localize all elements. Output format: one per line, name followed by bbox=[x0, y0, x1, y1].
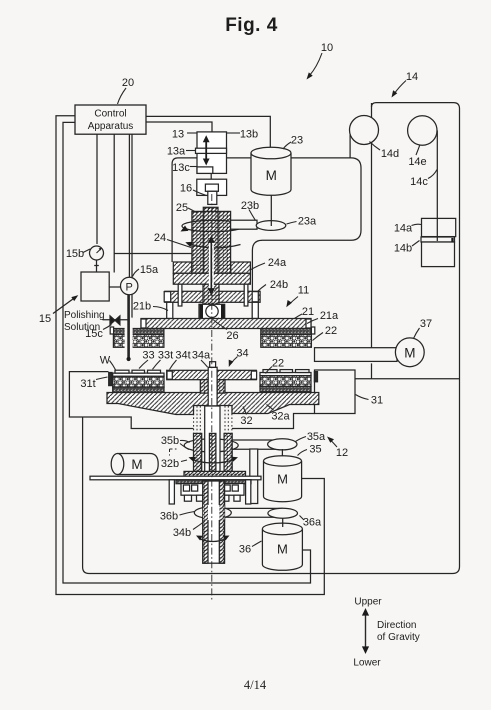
svg-text:of Gravity: of Gravity bbox=[377, 632, 420, 643]
motor 37 bbox=[395, 338, 424, 367]
leader 34b bbox=[193, 522, 204, 530]
wire outer left enclosure to motor 35 bbox=[56, 116, 324, 595]
svg-text:11: 11 bbox=[298, 285, 309, 297]
svg-text:M: M bbox=[404, 346, 415, 361]
arm hub columns bbox=[200, 380, 208, 393]
mount plate 24b bbox=[165, 291, 260, 302]
carrier strip 33t left bbox=[113, 373, 164, 376]
nozzle unit 16 box bbox=[197, 179, 227, 195]
frame 14 outline right side bbox=[83, 103, 460, 574]
leader 26 bbox=[214, 320, 228, 330]
carrier arm 34t bbox=[167, 370, 257, 379]
leader 25 bbox=[188, 208, 198, 213]
leader 15c bbox=[103, 325, 112, 330]
divider notch bbox=[451, 238, 453, 242]
leader 14 bbox=[394, 81, 406, 95]
svg-text:13: 13 bbox=[172, 129, 184, 141]
leader 35 bbox=[298, 450, 308, 456]
gauge to tank link bbox=[94, 260, 99, 272]
housing 31 left wall bbox=[69, 372, 193, 429]
leader 13b bbox=[227, 132, 240, 134]
leader 22 lower bbox=[266, 367, 273, 374]
leader 14c bbox=[428, 170, 437, 179]
leader 36a bbox=[300, 516, 305, 521]
svg-text:37: 37 bbox=[420, 318, 432, 330]
bearing block right bbox=[222, 484, 245, 502]
svg-text:34t: 34t bbox=[175, 350, 190, 362]
svg-text:35a: 35a bbox=[307, 431, 326, 443]
svg-text:34: 34 bbox=[236, 348, 248, 360]
svg-text:Apparatus: Apparatus bbox=[88, 121, 134, 132]
leader 24b bbox=[258, 285, 267, 292]
wire middle enclosure to motor 36 bbox=[63, 122, 311, 583]
rope inside weight box bbox=[436, 218, 438, 241]
svg-text:Upper: Upper bbox=[354, 597, 382, 608]
svg-text:14c: 14c bbox=[410, 176, 428, 188]
svg-text:24: 24 bbox=[154, 232, 166, 244]
belt lines 36b to 36a bbox=[213, 508, 283, 517]
svg-text:24b: 24b bbox=[270, 279, 288, 291]
leader 23a bbox=[287, 222, 297, 225]
upper pad 22 right bbox=[261, 335, 312, 348]
center pin 34a bbox=[208, 367, 217, 406]
svg-text:M: M bbox=[266, 168, 277, 183]
leader 31 bbox=[356, 395, 369, 400]
leader 13 bbox=[187, 132, 197, 134]
rope pulley 14e to counterweight bbox=[436, 131, 438, 219]
arm cap left bbox=[167, 371, 172, 379]
leader 32b bbox=[181, 460, 187, 462]
leader 36 bbox=[252, 541, 262, 547]
upper pad right end tab bbox=[311, 327, 314, 334]
collar plate bbox=[184, 471, 246, 476]
svg-text:14e: 14e bbox=[408, 156, 426, 168]
post 21b right bbox=[252, 302, 258, 318]
bolt pin left bbox=[178, 284, 182, 306]
leader 33 bbox=[139, 360, 148, 369]
bearing top plate bbox=[176, 480, 251, 484]
flange plate 24a bbox=[173, 273, 250, 284]
lower pad 33 left bbox=[113, 376, 164, 387]
leader 21a bbox=[307, 319, 318, 324]
leader 14e bbox=[416, 145, 420, 156]
leader 34t bbox=[170, 360, 177, 370]
rope pulley 14d to spindle housing bbox=[349, 130, 351, 158]
tank to pump link bbox=[109, 286, 121, 288]
svg-text:13c: 13c bbox=[172, 162, 190, 174]
pulley 14e bbox=[408, 116, 437, 145]
svg-text:W: W bbox=[100, 355, 111, 367]
pin tip 34a bbox=[210, 362, 216, 368]
wafer W 2 bbox=[132, 370, 145, 373]
svg-text:Control: Control bbox=[94, 109, 126, 120]
svg-text:Lower: Lower bbox=[353, 658, 381, 669]
lower pad 33 right bbox=[260, 376, 311, 387]
svg-text:35b: 35b bbox=[161, 435, 179, 447]
svg-text:16: 16 bbox=[180, 183, 192, 195]
control apparatus box 20 bbox=[75, 105, 146, 134]
housing 31 right box bbox=[315, 370, 356, 414]
svg-text:M: M bbox=[277, 472, 288, 487]
wire control to platen post 21b bbox=[131, 134, 133, 318]
counterweight divider bbox=[421, 237, 455, 242]
arrow 11 bbox=[289, 297, 298, 305]
svg-text:33: 33 bbox=[142, 350, 154, 362]
svg-text:20: 20 bbox=[122, 77, 134, 89]
svg-text:Fig. 4: Fig. 4 bbox=[225, 15, 278, 36]
stroke arrow in 13 bbox=[203, 135, 210, 165]
motor 35 bbox=[264, 456, 302, 502]
wafer right 3 bbox=[296, 370, 310, 373]
rotation arc 32b bbox=[192, 460, 235, 464]
leader 15a bbox=[133, 269, 140, 277]
leader 15b bbox=[83, 249, 90, 253]
rail left bbox=[169, 480, 174, 504]
rotation arc 34b bbox=[199, 539, 227, 542]
leader 22 upper bbox=[313, 333, 324, 341]
leader 13c bbox=[190, 166, 197, 168]
leader 32 bbox=[243, 407, 247, 415]
svg-text:36b: 36b bbox=[160, 511, 178, 523]
svg-text:26: 26 bbox=[226, 330, 238, 342]
wafer right 1 bbox=[263, 370, 277, 373]
housing 31 bottom right segment bbox=[232, 414, 315, 429]
svg-text:14a: 14a bbox=[394, 223, 413, 235]
svg-text:15a: 15a bbox=[140, 264, 159, 276]
svg-text:32a: 32a bbox=[271, 411, 290, 423]
leader 33t bbox=[153, 360, 161, 369]
svg-text:10: 10 bbox=[321, 42, 333, 54]
leader 23 bbox=[283, 142, 291, 149]
platen 21 left cap bbox=[141, 319, 146, 328]
shaft motor 23 to eccentric 23a bbox=[270, 195, 272, 223]
arm cap right bbox=[251, 371, 256, 379]
bolt cap left 24b bbox=[164, 292, 171, 302]
rotation ellipse around spindle 24 bbox=[182, 220, 244, 231]
lower pad backing right bbox=[260, 386, 311, 391]
flange rim left 24a bbox=[173, 262, 191, 273]
svg-text:21: 21 bbox=[302, 306, 314, 318]
svg-text:21b: 21b bbox=[133, 301, 151, 313]
svg-text:31t: 31t bbox=[80, 378, 95, 390]
shaft 26 below flange bbox=[203, 284, 219, 305]
drive tubes 35b bbox=[194, 433, 202, 471]
svg-text:23a: 23a bbox=[298, 216, 317, 228]
shaft 36a to motor 36 bbox=[282, 518, 284, 527]
nozzle tip bbox=[127, 357, 131, 361]
pulley 14d bbox=[350, 116, 379, 145]
upper pad 22 right backing bbox=[261, 329, 312, 335]
leader 35a bbox=[296, 437, 307, 442]
carrier strip right bbox=[260, 373, 311, 376]
pulley ellipse 35a bbox=[268, 439, 297, 450]
wire control to cylinder 13 bbox=[146, 122, 212, 132]
leader 36b bbox=[180, 512, 195, 516]
nozzle stem 16 bbox=[208, 191, 217, 204]
shaft stub into 23a bbox=[270, 221, 272, 226]
leader 16 bbox=[193, 190, 207, 196]
leader 10 bbox=[310, 53, 323, 76]
retainer cap right bbox=[314, 372, 317, 382]
rotation arrowhead bbox=[181, 226, 189, 232]
svg-text:32: 32 bbox=[240, 415, 252, 427]
svg-text:12: 12 bbox=[336, 447, 348, 459]
wire control to motor 23 bbox=[146, 116, 270, 148]
counterweight 14a bbox=[422, 218, 456, 236]
spindle shaft 25 top stub bbox=[203, 207, 218, 212]
svg-text:14b: 14b bbox=[394, 243, 412, 255]
platen 21 right cap bbox=[306, 319, 311, 328]
leader 37 bbox=[414, 328, 420, 339]
valve 15c bbox=[110, 316, 120, 325]
pipe tank to valve to pipe bbox=[103, 319, 129, 321]
shaft 35a to motor 35 bbox=[281, 449, 283, 456]
piston bar 13a bbox=[196, 148, 227, 153]
svg-text:4/14: 4/14 bbox=[244, 678, 267, 692]
svg-text:15b: 15b bbox=[66, 248, 84, 260]
up-down arrow on shaft bbox=[208, 236, 215, 296]
dashed marker 32b bbox=[170, 449, 177, 456]
link 13 to 16 bbox=[210, 173, 212, 180]
post 21b left bbox=[167, 302, 173, 318]
link arm 23b bbox=[231, 220, 257, 229]
svg-text:M: M bbox=[131, 457, 142, 472]
motor 37 link bar bbox=[315, 348, 398, 362]
leader 20 bbox=[118, 88, 127, 104]
flange rim right 24a bbox=[231, 262, 251, 273]
svg-text:23b: 23b bbox=[241, 200, 259, 212]
svg-text:13b: 13b bbox=[240, 129, 258, 141]
leader 34a bbox=[201, 360, 208, 367]
bolt cap right 24b bbox=[252, 292, 258, 302]
wafer W 1 bbox=[115, 370, 129, 373]
svg-text:22: 22 bbox=[272, 358, 284, 370]
lower pad backing left bbox=[113, 387, 164, 392]
rotation arc arrow on shaft 24 bbox=[190, 244, 241, 248]
svg-text:24a: 24a bbox=[268, 257, 287, 269]
arrow 12 bbox=[330, 440, 337, 448]
svg-text:15c: 15c bbox=[85, 328, 103, 340]
svg-text:23: 23 bbox=[291, 135, 303, 147]
upper platen 21 bbox=[141, 319, 311, 329]
svg-text:31: 31 bbox=[371, 395, 383, 407]
leader W bbox=[110, 361, 116, 370]
wire control to pump 15a bbox=[128, 134, 130, 277]
leader 35b bbox=[180, 440, 190, 449]
leader 31t bbox=[96, 377, 108, 380]
wire control to spindle sleeve 25 bbox=[114, 134, 192, 272]
leader 14a bbox=[412, 224, 422, 225]
wafer W 3 bbox=[148, 370, 161, 373]
spline shaft 34b core bbox=[205, 406, 220, 472]
wafer right 2 bbox=[280, 370, 293, 373]
counterweight 14b bbox=[422, 242, 455, 267]
svg-text:34a: 34a bbox=[192, 350, 211, 362]
svg-text:22: 22 bbox=[325, 325, 337, 337]
leader 21 bbox=[295, 314, 303, 319]
shaft over 36b bbox=[203, 505, 225, 521]
spindle sleeve 25 and shaft 24 bbox=[192, 211, 231, 273]
upper pad 22 left bbox=[113, 335, 163, 348]
svg-text:15: 15 bbox=[39, 313, 51, 325]
motor 23 bbox=[251, 147, 291, 195]
leader 24 bbox=[167, 240, 191, 248]
leader 14d bbox=[370, 142, 381, 151]
gauge 15b bbox=[90, 246, 104, 260]
tank 15 polishing solution bbox=[81, 272, 109, 301]
svg-text:14d: 14d bbox=[381, 148, 399, 160]
svg-text:36: 36 bbox=[239, 544, 251, 556]
pump 15a bbox=[121, 277, 138, 294]
bolt pin right bbox=[244, 284, 248, 306]
wire housing 31 to frame bbox=[355, 378, 460, 380]
gravity arrow bbox=[365, 614, 367, 649]
leader 23b bbox=[249, 210, 256, 221]
pipe pump down bbox=[127, 295, 130, 358]
svg-text:14: 14 bbox=[406, 71, 418, 83]
bearing block left bbox=[181, 484, 204, 502]
upper pad 22 left backing bbox=[113, 329, 163, 335]
pulley ellipse 36a bbox=[268, 508, 298, 518]
leader 21b bbox=[153, 307, 168, 311]
spindle housing loop to platen 21 bbox=[227, 158, 362, 319]
arrow 34 bbox=[231, 357, 238, 364]
svg-text:32b: 32b bbox=[161, 458, 179, 470]
svg-text:25: 25 bbox=[176, 202, 188, 214]
arrow label 15 bbox=[53, 298, 75, 314]
retainer cap 31t bbox=[109, 373, 112, 386]
rail right bbox=[246, 480, 251, 504]
lower platen 32 bbox=[107, 393, 319, 415]
leader 14b bbox=[412, 241, 420, 247]
table bar bbox=[90, 476, 261, 480]
upper pad left end tab bbox=[110, 327, 113, 334]
motor 36 bbox=[262, 523, 302, 570]
spindle housing loop left side bbox=[172, 158, 197, 262]
coupling ellipse 35b bbox=[184, 439, 238, 452]
gauge needle bbox=[97, 249, 101, 253]
port 13c bbox=[197, 167, 213, 174]
frame post of pulleys bbox=[371, 103, 373, 379]
svg-text:P: P bbox=[126, 281, 133, 293]
svg-text:13a: 13a bbox=[167, 146, 186, 158]
leader 32a bbox=[267, 405, 274, 411]
eccentric ellipse 23a bbox=[256, 221, 286, 231]
hidden tube lines dotted bbox=[194, 406, 232, 433]
svg-text:33t: 33t bbox=[158, 350, 173, 362]
svg-text:21a: 21a bbox=[320, 310, 339, 322]
lower shaft 34b bbox=[203, 481, 225, 563]
svg-text:Direction: Direction bbox=[377, 620, 416, 631]
belt lines 35b to 35a bbox=[213, 440, 282, 449]
cylinder actuator 13 body 13b bbox=[197, 132, 227, 174]
wire control to gauge 15b bbox=[96, 134, 98, 244]
svg-text:34b: 34b bbox=[173, 527, 191, 539]
svg-text:35: 35 bbox=[309, 444, 321, 456]
coupling ellipse 36b bbox=[194, 507, 231, 519]
bearing 26 bbox=[199, 304, 225, 320]
center axis line bbox=[211, 194, 213, 600]
support post bbox=[250, 449, 258, 504]
leader 13a bbox=[186, 150, 196, 152]
svg-text:36a: 36a bbox=[303, 517, 322, 529]
svg-text:M: M bbox=[277, 542, 288, 557]
motor 32b horizontal bbox=[111, 454, 158, 475]
svg-text:Polishing: Polishing bbox=[64, 310, 105, 321]
nozzle cap 16 bbox=[205, 184, 218, 191]
slurry channel through platen bbox=[125, 318, 133, 349]
leader 24a bbox=[251, 263, 265, 270]
